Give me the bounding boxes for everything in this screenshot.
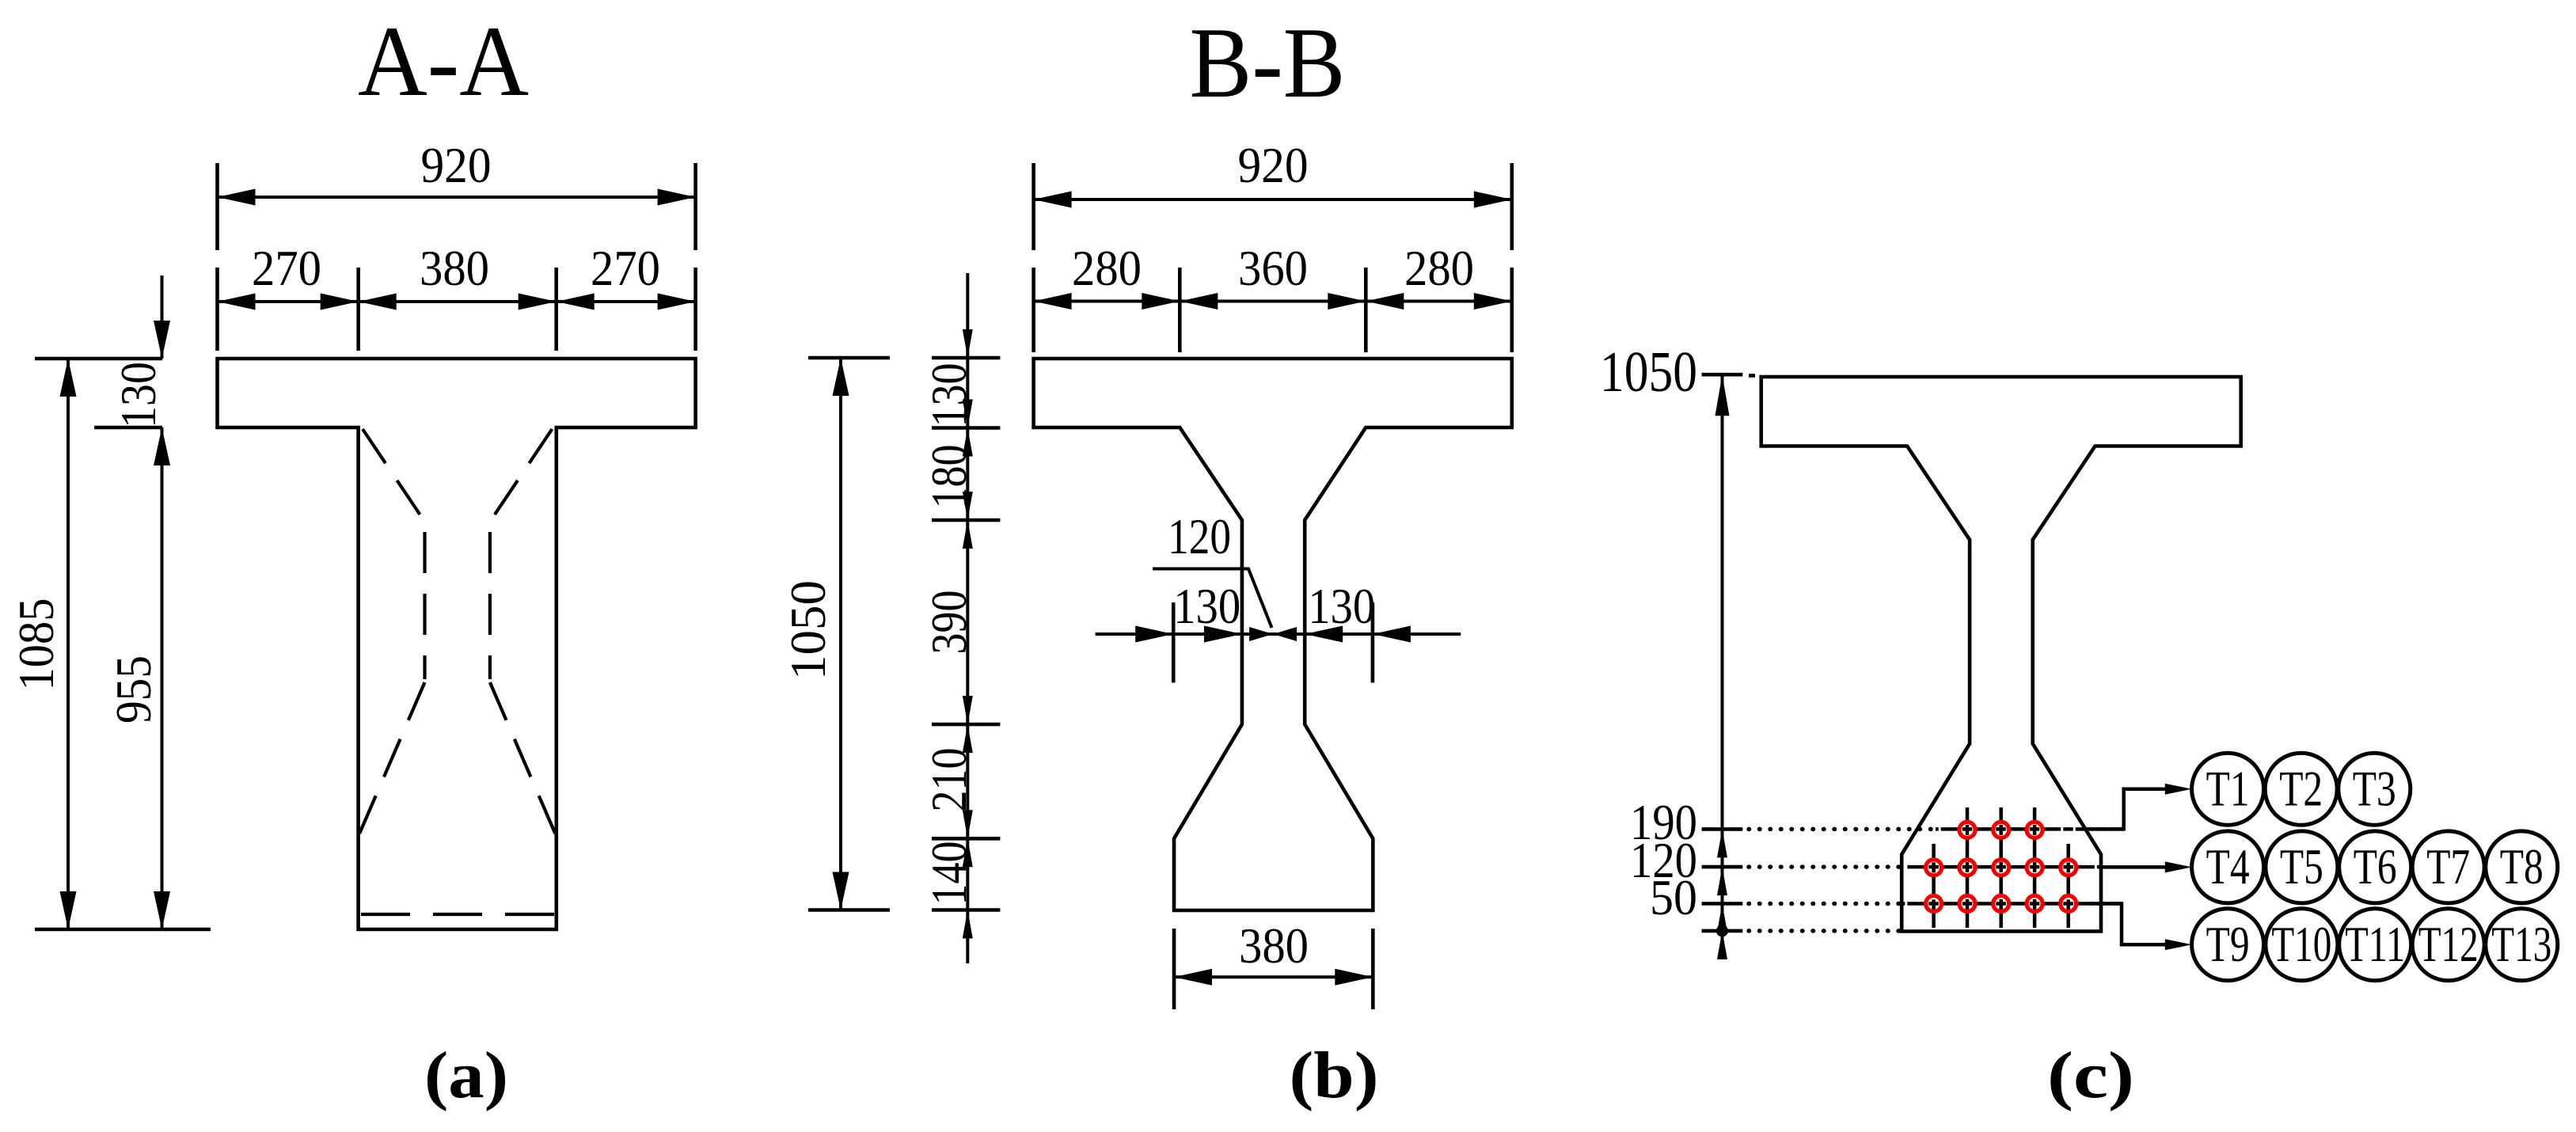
dim 270/380/270: line (218, 300, 696, 303)
sensor circles T4-T8 (2192, 831, 2558, 903)
svg-text:120: 120 (1168, 509, 1231, 564)
dim 380 B bottom: arrowheads (1174, 969, 1212, 986)
svg-text:T1: T1 (2206, 760, 2250, 816)
dashed inner profile: bottom horizontal (361, 913, 554, 916)
dim 1050 C: top tick (1702, 373, 1743, 377)
svg-text:270: 270 (252, 241, 321, 296)
dashed inner profile: right upper slant (490, 429, 553, 522)
gauge row line 190 (1936, 827, 2124, 831)
gauge column line 1 (1932, 844, 1936, 928)
dim 130/130 web: line (1096, 632, 1461, 636)
svg-text:210: 210 (921, 748, 977, 812)
dim 270/380/270: arrowheads (218, 294, 256, 310)
svg-text:1050: 1050 (781, 580, 836, 680)
red gauge rings row 120 (1926, 860, 2076, 876)
dim 1050 B: line (839, 358, 842, 910)
svg-text:T9: T9 (2206, 916, 2250, 972)
svg-text:(b): (b) (1290, 1039, 1379, 1112)
dotted leader datum (1749, 929, 1902, 933)
svg-text:180: 180 (921, 445, 977, 509)
svg-text:360: 360 (1238, 241, 1308, 296)
svg-text:130: 130 (1308, 579, 1375, 634)
chain ticks B (932, 358, 1000, 910)
dim 130/130 web: arrowheads (1135, 626, 1173, 643)
chain arrowheads B (963, 329, 973, 358)
svg-text:380: 380 (1239, 918, 1309, 974)
svg-text:(c): (c) (2047, 1039, 2134, 1112)
svg-text:T2: T2 (2279, 760, 2323, 816)
svg-text:130: 130 (111, 362, 166, 428)
svg-text:130: 130 (1173, 579, 1241, 634)
svg-text:920: 920 (421, 138, 492, 193)
svg-text:280: 280 (1404, 241, 1474, 296)
extension line bottom-left A (35, 928, 211, 932)
dim 920 A: arrowheads (218, 189, 256, 206)
dim 955: arrowheads (154, 427, 170, 465)
svg-text:T11: T11 (2345, 916, 2405, 972)
dotted leader 50 (1749, 902, 1902, 906)
svg-text:130: 130 (921, 363, 977, 427)
dim 270/380/270: ticks (218, 268, 696, 351)
svg-text:B-B: B-B (1190, 8, 1346, 119)
svg-text:140: 140 (921, 841, 977, 906)
dim 280/360/280: ticks (1034, 268, 1512, 352)
dim 920 B: arrowheads (1034, 192, 1072, 208)
dim 380 B bottom: line (1174, 975, 1373, 978)
dim 130 A: upper arrow line (161, 275, 164, 359)
dim 920 B: extension lines (1034, 163, 1512, 250)
leader to T4 (2101, 865, 2166, 869)
dim 130/130 web: ticks (1173, 602, 1373, 682)
dim 1050 B: arrowheads (833, 358, 849, 396)
dim 1050 C: vertical line (1721, 374, 1724, 959)
dim 920 B: line (1034, 198, 1512, 201)
svg-text:920: 920 (1238, 138, 1309, 193)
svg-text:T12: T12 (2418, 916, 2479, 972)
svg-text:T5: T5 (2280, 838, 2323, 895)
svg-text:1050: 1050 (1600, 340, 1697, 404)
red gauge rings row 190 (1959, 822, 2042, 838)
datum dot C (1716, 925, 1728, 936)
dotted leader 120 (1749, 864, 1906, 869)
svg-text:390: 390 (921, 591, 977, 655)
svg-text:T4: T4 (2206, 838, 2250, 895)
dim 1085: line (66, 359, 70, 929)
dashed inner profile: left lower slant (359, 682, 425, 836)
dim 1085: arrowheads (60, 359, 77, 397)
dim 380 B bottom: extension lines (1174, 929, 1373, 1009)
svg-text:T8: T8 (2500, 838, 2544, 895)
svg-text:A-A: A-A (358, 6, 529, 117)
svg-text:T13: T13 (2491, 916, 2551, 972)
dim 1050 C: arrowheads (1715, 374, 1730, 416)
leader to T9 (2090, 904, 2166, 945)
gauge row line 120 (1906, 865, 2101, 869)
gauge column line 2 (1966, 807, 1970, 928)
svg-text:380: 380 (420, 241, 489, 296)
svg-text:T10: T10 (2271, 916, 2331, 972)
gauge column line 3 (1999, 807, 2003, 928)
dashed inner profile: right lower slant (490, 682, 557, 836)
level ticks C (1702, 829, 1743, 931)
dim 280/360/280: arrowheads (1034, 293, 1072, 310)
dotted leader 190 (1749, 827, 1936, 832)
girder outline A-A (T section) (218, 359, 696, 929)
girder outline C (1761, 377, 2241, 932)
red gauge rings row 50 (1926, 896, 2076, 912)
svg-text:1085: 1085 (9, 598, 64, 691)
gauge column line 5 (2066, 844, 2070, 928)
svg-text:280: 280 (1072, 241, 1142, 296)
dim 955: line (161, 427, 164, 929)
girder outline B-B (I section) (1034, 359, 1512, 910)
dashed inner profile: left upper slant (363, 429, 425, 522)
dim 920 A: extension lines (218, 163, 696, 250)
leader 120: polyline (1153, 569, 1272, 629)
centerline dot top C (1749, 374, 1755, 378)
extension line top-left A (35, 357, 162, 361)
dim 1050 B: extension lines (808, 358, 890, 910)
svg-text:270: 270 (591, 241, 660, 296)
dim 920 A: line (218, 196, 696, 199)
sensor circles T9-T13 (2192, 909, 2558, 981)
dashed inner profile: right vertical (488, 532, 492, 679)
sensor circles T1-T3 (2192, 753, 2411, 825)
gauge column line 4 (2033, 807, 2037, 928)
chain dimension line B (966, 273, 969, 963)
dim 280/360/280: line (1034, 300, 1512, 303)
svg-text:T7: T7 (2426, 838, 2470, 895)
svg-text:T6: T6 (2354, 838, 2397, 895)
leader to T1 (2090, 789, 2166, 830)
extension line flange-bottom-left A (94, 426, 162, 430)
dashed inner profile: left vertical (423, 532, 426, 679)
gauge row line 50 (1902, 902, 2122, 906)
svg-text:50: 50 (1650, 870, 1697, 925)
svg-text:T3: T3 (2353, 760, 2396, 816)
svg-text:(a): (a) (424, 1039, 508, 1112)
svg-text:955: 955 (106, 655, 161, 724)
